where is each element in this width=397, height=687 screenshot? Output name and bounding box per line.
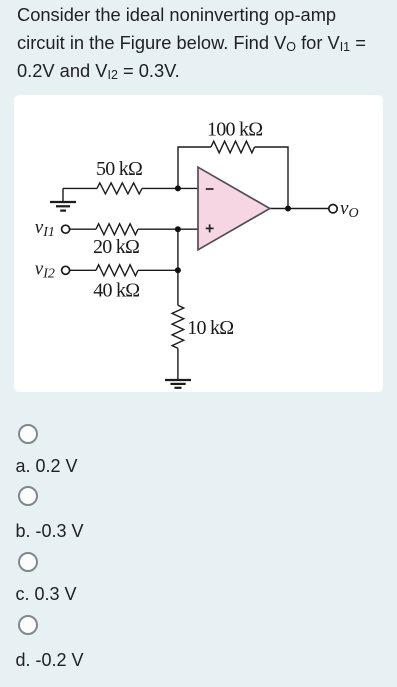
svg-text:40 kΩ: 40 kΩ xyxy=(93,280,139,302)
svg-text:vO: vO xyxy=(340,198,359,221)
svg-text:vI2: vI2 xyxy=(35,258,55,281)
svg-text:20 kΩ: 20 kΩ xyxy=(93,236,139,258)
svg-text:10 kΩ: 10 kΩ xyxy=(187,317,233,339)
svg-text:50 kΩ: 50 kΩ xyxy=(96,158,142,180)
svg-text:vI1: vI1 xyxy=(35,217,55,240)
svg-text:100 kΩ: 100 kΩ xyxy=(207,119,262,141)
